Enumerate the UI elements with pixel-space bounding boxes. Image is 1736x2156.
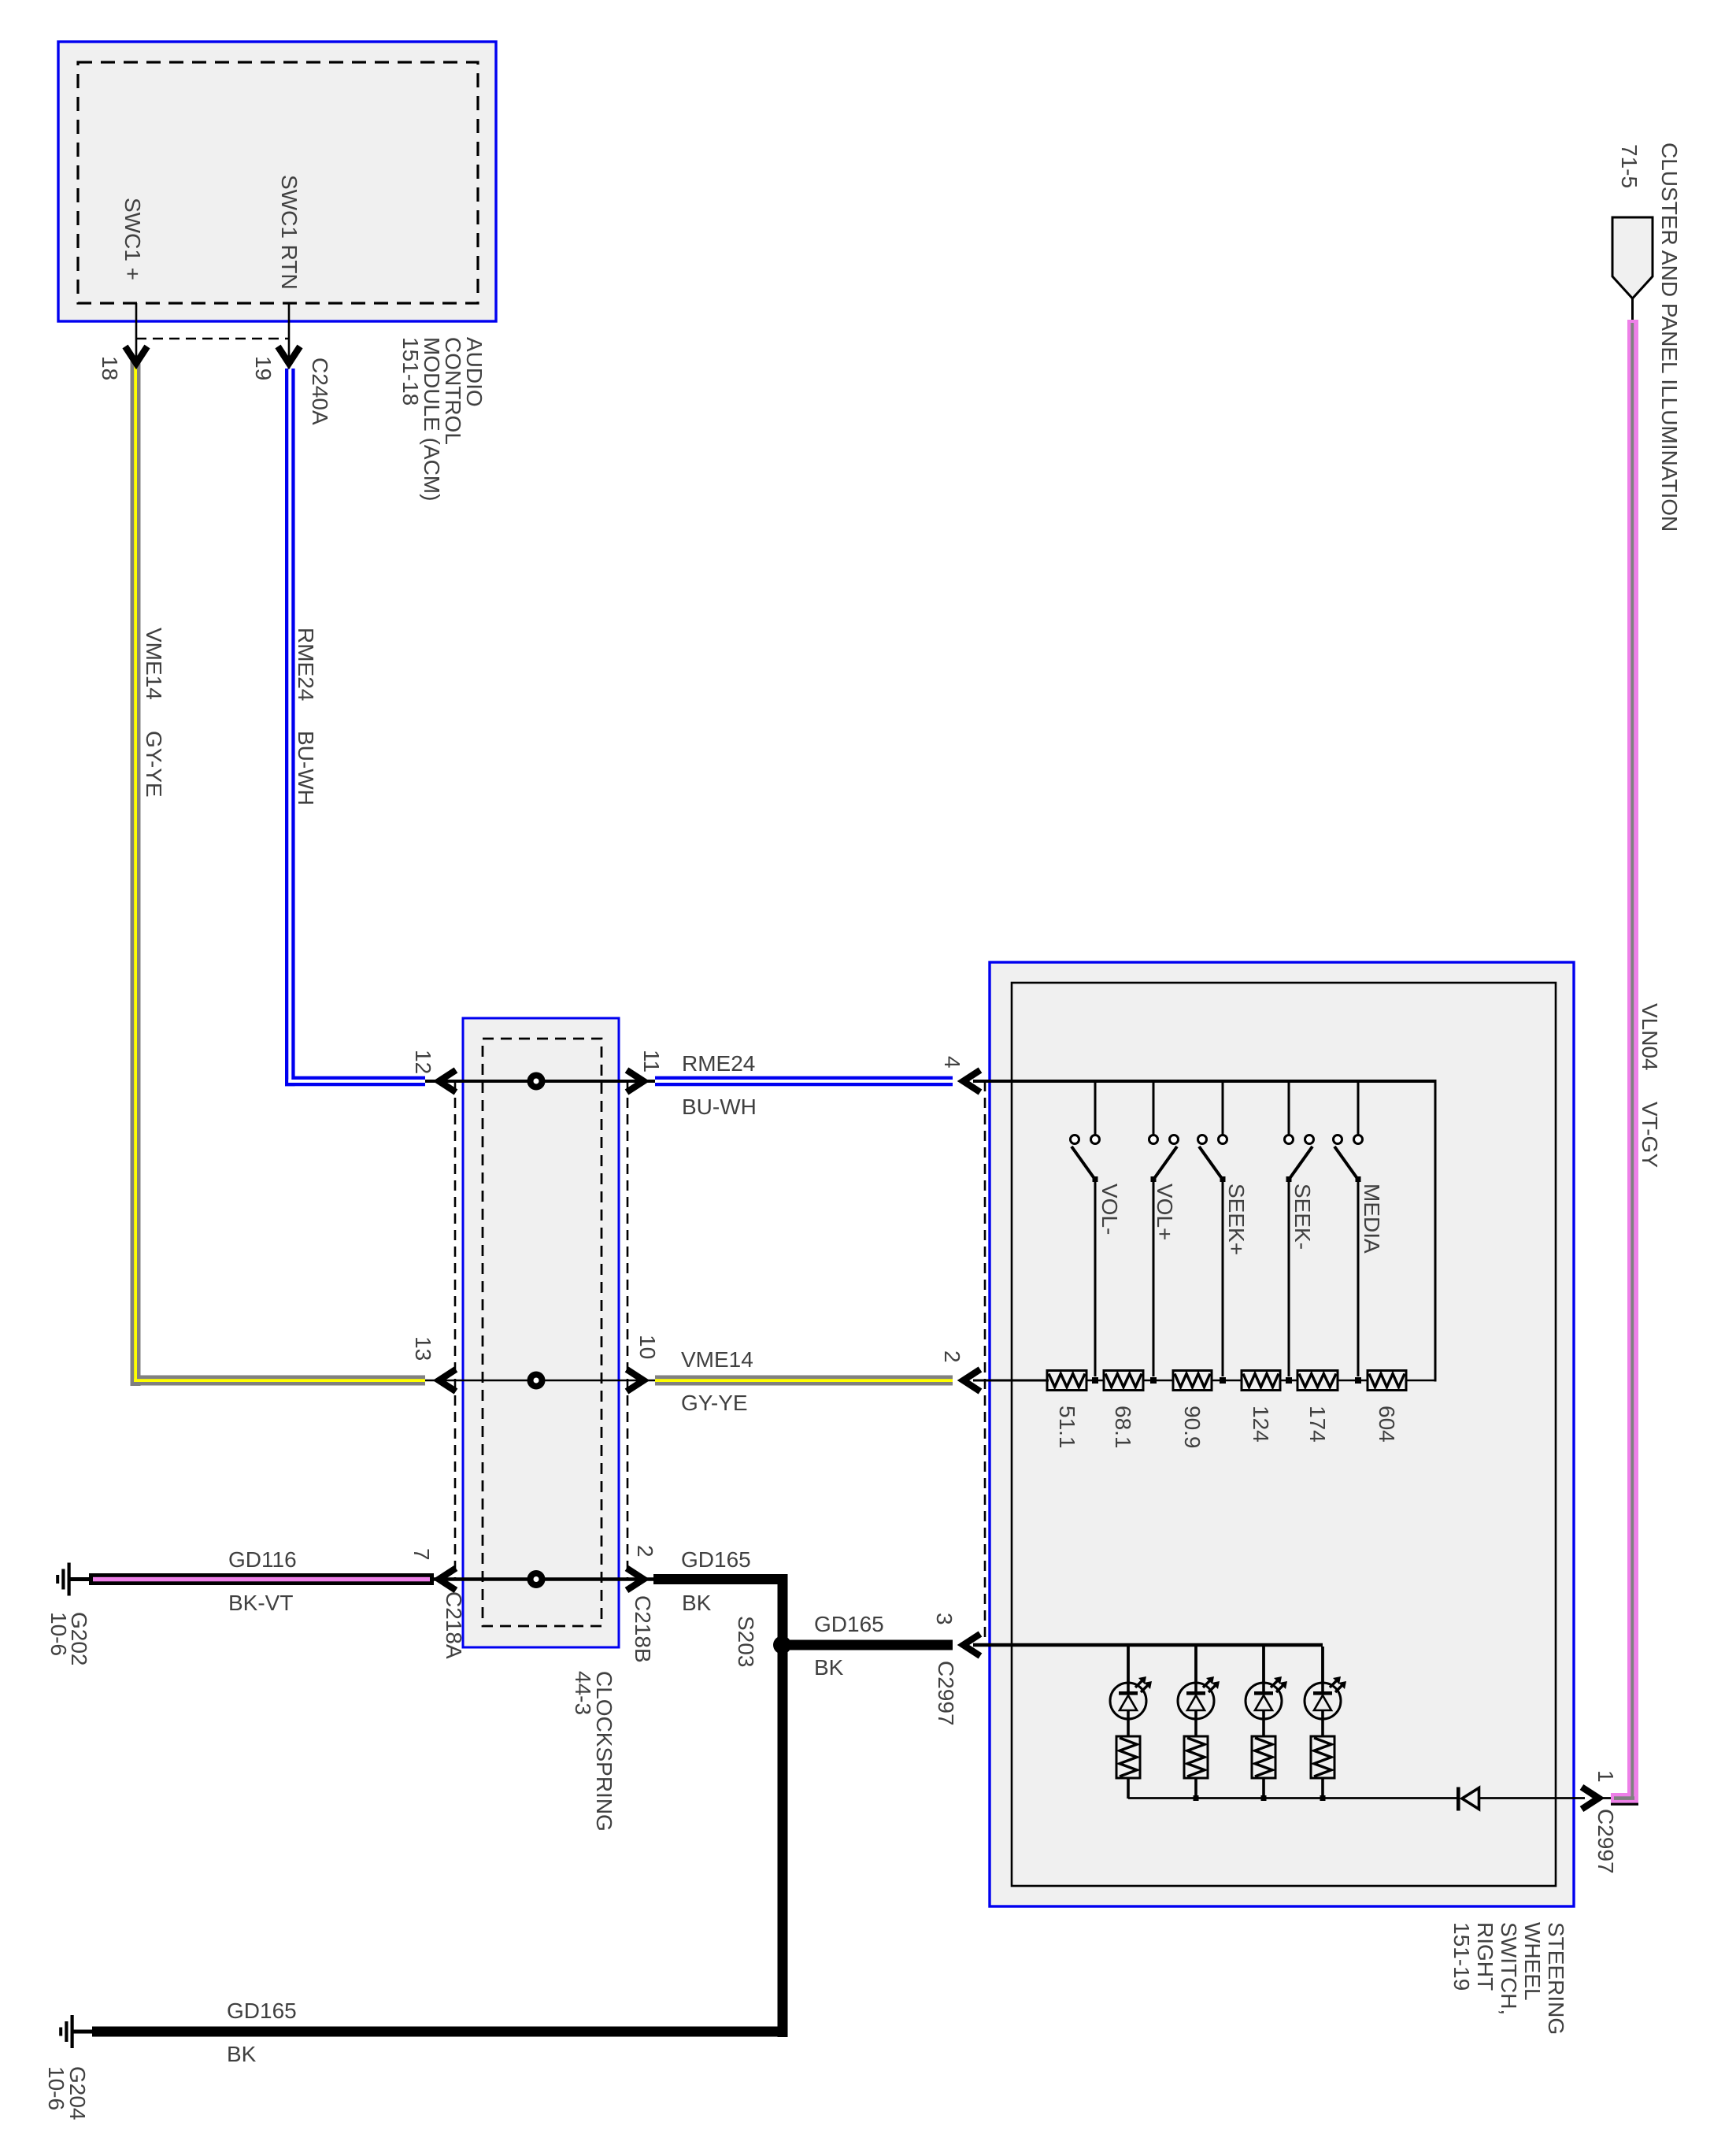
svg-text:151-19: 151-19 [1449, 1922, 1474, 1991]
clockspring pin 7 arrow [439, 1569, 457, 1591]
svg-text:12: 12 [411, 1050, 435, 1074]
wire between 124 and 174 [1280, 1380, 1297, 1382]
resistor 68.1 [1104, 1371, 1143, 1391]
svg-text:VOL+: VOL+ [1153, 1184, 1177, 1240]
LED 3 resistor [1252, 1736, 1275, 1778]
node SEEK- [1286, 1377, 1292, 1384]
svg-text:19: 19 [251, 356, 276, 380]
svg-text:GD165: GD165 [681, 1547, 751, 1572]
LED 4 branch wire [1321, 1647, 1324, 1683]
rail node LED4 [1320, 1795, 1326, 1801]
ACM box (Audio Control Module) [58, 42, 496, 321]
LED 2 branch wire [1194, 1647, 1197, 1683]
resistor 90.9 [1173, 1371, 1212, 1391]
wire VME14 GY-YE vertical run [131, 358, 141, 1386]
wire pin 4 top rail [973, 1080, 1435, 1083]
LED 2 resistor [1184, 1736, 1208, 1778]
wire pin 1 stub [1603, 1797, 1612, 1799]
svg-text:2: 2 [940, 1350, 964, 1363]
svg-text:GY-YE: GY-YE [142, 731, 166, 798]
wire VLN04 gray stripe [1631, 323, 1634, 1799]
off-page connector CLUSTER AND PANEL ILLUMINATION [1612, 217, 1653, 298]
svg-text:BU-WH: BU-WH [294, 731, 318, 806]
clockspring contact ring wire 2 [531, 1375, 542, 1387]
wire VME14 yellow stripe [134, 358, 137, 1382]
svg-text:10: 10 [635, 1335, 660, 1359]
svg-text:68.1: 68.1 [1111, 1406, 1135, 1449]
svg-text:VME14: VME14 [681, 1347, 753, 1372]
wire between 174 and 604 [1338, 1380, 1368, 1382]
svg-text:RME24: RME24 [682, 1051, 755, 1076]
pin 19 arrow [278, 346, 300, 364]
wire RME24 BU-WH vertical run [285, 369, 295, 1086]
resistor 51.1 [1047, 1371, 1086, 1391]
svg-text:GD116: GD116 [228, 1547, 297, 1572]
svg-text:BU-WH: BU-WH [682, 1095, 757, 1119]
LED 2 to rail wire [1194, 1778, 1197, 1799]
connector C2997 dashed line [984, 1081, 986, 1645]
switch inner outline [1012, 983, 1556, 1886]
node SEEK+ [1220, 1377, 1226, 1384]
riser wire to top rail [1434, 1080, 1437, 1382]
clockspring inner dashed outline [483, 1039, 601, 1626]
connector C218B dashed line [627, 1081, 629, 1580]
pin 19 stub wire [288, 303, 291, 369]
LED 3 [1246, 1683, 1282, 1719]
svg-text:4: 4 [940, 1056, 964, 1069]
wire pin 2 entry [973, 1380, 1049, 1382]
svg-text:BK: BK [227, 2042, 257, 2066]
svg-text:18: 18 [98, 356, 122, 380]
svg-text:124: 124 [1249, 1406, 1273, 1443]
LED 2 [1178, 1683, 1214, 1719]
svg-text:STEERING: STEERING [1544, 1922, 1568, 2035]
svg-text:90.9: 90.9 [1180, 1406, 1205, 1449]
svg-text:174: 174 [1305, 1406, 1330, 1443]
svg-text:71-5: 71-5 [1617, 144, 1642, 188]
pin 18 stub wire [135, 303, 138, 360]
ground G202 symbol [68, 1563, 71, 1596]
diode (illumination) [1457, 1787, 1460, 1811]
svg-text:MEDIA: MEDIA [1360, 1184, 1384, 1254]
wire pin 3 LED rail [973, 1643, 1323, 1647]
wire RME24 white stripe [288, 369, 291, 1083]
svg-text:44-3: 44-3 [571, 1671, 595, 1715]
LED 3 to rail wire [1262, 1778, 1265, 1799]
clockspring contact ring wire 1 [531, 1076, 542, 1087]
clockspring pin 2 arrow [627, 1569, 644, 1591]
svg-text:13: 13 [411, 1336, 435, 1361]
svg-text:SWC1 +: SWC1 + [120, 198, 145, 280]
svg-text:7: 7 [409, 1548, 434, 1561]
wire VLN04 end cap [1611, 1803, 1638, 1806]
wire VME14 GY-YE clockspring to switch [655, 1376, 953, 1386]
node MEDIA [1355, 1377, 1361, 1384]
connector C240A dashed line [136, 338, 289, 340]
node VOL+ [1150, 1377, 1157, 1384]
switch pin 3 arrow [964, 1634, 981, 1656]
clockspring pin 12 arrow [439, 1070, 457, 1092]
switch SEEK+ [1222, 1083, 1224, 1135]
svg-text:BK: BK [814, 1655, 844, 1680]
svg-text:VOL-: VOL- [1097, 1184, 1122, 1235]
wire VLN04 VT-GY vertical run [1627, 320, 1638, 1803]
LED 1 to resistor wire [1127, 1719, 1130, 1736]
resistor 124 [1242, 1371, 1280, 1391]
svg-text:3: 3 [932, 1613, 957, 1625]
svg-text:51.1: 51.1 [1055, 1406, 1079, 1449]
wire VLN04 VT-GY corner to pin 1 [1611, 1793, 1638, 1803]
svg-text:RME24: RME24 [294, 628, 318, 701]
svg-text:SWITCH,: SWITCH, [1497, 1922, 1521, 2015]
wire RME24 BU-WH clockspring to switch [655, 1076, 953, 1087]
ground G204 symbol [71, 2015, 74, 2048]
svg-text:C2997: C2997 [1593, 1809, 1618, 1874]
wire GD116 BK-VT [89, 1573, 434, 1585]
svg-text:S203: S203 [734, 1616, 758, 1667]
resistor 174 [1297, 1371, 1338, 1391]
LED 3 branch wire [1262, 1647, 1265, 1683]
LED 1 to rail wire [1127, 1778, 1130, 1799]
svg-text:BK: BK [682, 1591, 712, 1615]
svg-text:10-6: 10-6 [44, 2066, 68, 2110]
switch SEEK- [1288, 1083, 1290, 1135]
LED bottom rail [1128, 1797, 1457, 1799]
wire between 51.1 and 68.1 [1086, 1380, 1104, 1382]
svg-text:VLN04: VLN04 [1638, 1003, 1662, 1071]
rail node LED3 [1261, 1795, 1267, 1801]
connector stub wire [1631, 298, 1634, 320]
switch MEDIA [1357, 1083, 1360, 1135]
wire between 68.1 and 90.9 [1143, 1380, 1173, 1382]
svg-text:BK-VT: BK-VT [228, 1591, 293, 1615]
svg-text:SEEK-: SEEK- [1290, 1184, 1315, 1250]
LED 4 to resistor wire [1321, 1719, 1324, 1736]
wire VME14 GY-YE horizontal run [131, 1376, 426, 1386]
clockspring pin 10 arrow [627, 1369, 644, 1391]
svg-text:GD165: GD165 [227, 1999, 297, 2023]
wire VME14 through clockspring [425, 1380, 655, 1382]
svg-text:GD165: GD165 [814, 1612, 884, 1636]
svg-text:VME14: VME14 [142, 628, 166, 700]
svg-text:C240A: C240A [308, 357, 332, 425]
wire diode to pin 1 [1479, 1797, 1585, 1799]
LED 4 [1305, 1683, 1341, 1719]
switch VOL+ [1153, 1083, 1155, 1135]
LED 4 to rail wire [1321, 1778, 1324, 1799]
clockspring pin 13 arrow [439, 1369, 457, 1391]
LED 3 to resistor wire [1262, 1719, 1265, 1736]
LED 1 resistor [1116, 1736, 1140, 1778]
svg-text:SEEK+: SEEK+ [1224, 1184, 1249, 1255]
wire GD165 BK clockspring to corner [653, 1574, 788, 1584]
wire 604 to riser [1406, 1380, 1435, 1382]
clockspring contact ring wire 3 [531, 1573, 542, 1585]
svg-text:1: 1 [1593, 1770, 1618, 1783]
clockspring box [463, 1018, 619, 1647]
switch VOL- [1094, 1083, 1097, 1135]
connector C218A dashed line [454, 1081, 457, 1580]
svg-text:CLUSTER AND PANEL ILLUMINATION: CLUSTER AND PANEL ILLUMINATION [1657, 143, 1682, 532]
svg-text:RIGHT: RIGHT [1473, 1922, 1497, 1991]
LED 4 resistor [1311, 1736, 1334, 1778]
ACM inner dashed outline [78, 62, 478, 303]
wire GD165 BK vertical through S203 [778, 1574, 788, 2037]
steering wheel switch box [990, 962, 1574, 1906]
clockspring pin 11 arrow [627, 1070, 644, 1092]
svg-text:604: 604 [1375, 1406, 1399, 1443]
svg-text:2: 2 [633, 1545, 657, 1558]
svg-text:C218A: C218A [442, 1591, 466, 1659]
svg-text:151-18: 151-18 [398, 337, 423, 406]
svg-text:GY-YE: GY-YE [681, 1391, 748, 1415]
svg-text:SWC1 RTN: SWC1 RTN [277, 175, 302, 290]
wire GD165 BK branch to pin 3 [782, 1640, 953, 1650]
node VOL- [1092, 1377, 1098, 1384]
resistor 604 [1368, 1371, 1406, 1391]
svg-text:11: 11 [639, 1050, 664, 1072]
LED 2 to resistor wire [1194, 1719, 1197, 1736]
wire GD165 BK bottom run to G204 [92, 2027, 788, 2037]
wire between 90.9 and 124 [1212, 1380, 1242, 1382]
svg-text:C2997: C2997 [934, 1661, 958, 1726]
wire RME24 through clockspring [425, 1080, 655, 1083]
svg-text:10-6: 10-6 [46, 1612, 71, 1656]
switch pin 1 arrow [1582, 1787, 1599, 1810]
pin 18 arrow [125, 346, 147, 364]
svg-text:VT-GY: VT-GY [1638, 1102, 1662, 1168]
switch pin 2 arrow [964, 1369, 981, 1391]
wire RME24 BU-WH horizontal run [285, 1076, 425, 1087]
svg-text:WHEEL: WHEEL [1520, 1922, 1545, 2001]
switch pin 4 arrow [964, 1070, 981, 1092]
svg-text:C218B: C218B [631, 1595, 655, 1663]
LED 1 [1110, 1683, 1146, 1719]
rail node LED2 [1194, 1795, 1199, 1801]
ground wire through clockspring [434, 1577, 655, 1581]
splice S203 [773, 1636, 791, 1654]
LED 1 branch wire [1127, 1647, 1130, 1683]
